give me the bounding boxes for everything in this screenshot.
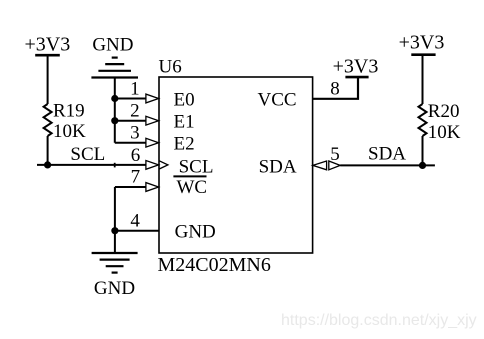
wire: R19 bottom to SCL net: [47, 136, 49, 165]
svg-text:SDA: SDA: [368, 144, 406, 165]
wire: pin 2 stub: [115, 120, 146, 122]
svg-text:E2: E2: [174, 134, 195, 155]
wire: VCC pin 8: [313, 77, 358, 99]
svg-text:WC: WC: [177, 177, 208, 198]
svg-text:7: 7: [131, 166, 141, 187]
junction: bus / pin1: [111, 95, 118, 102]
svg-text:4: 4: [130, 210, 140, 231]
wire: pin 1 stub: [115, 98, 146, 100]
svg-text:E0: E0: [174, 90, 195, 111]
power symbol +3V3 (left): [25, 34, 71, 56]
resistor R19: [44, 101, 86, 142]
svg-text:GND: GND: [92, 35, 133, 56]
svg-text:https://blog.csdn.net/xjy_xjy: https://blog.csdn.net/xjy_xjy: [281, 312, 477, 329]
svg-text:1: 1: [130, 79, 140, 100]
svg-text:+3V3: +3V3: [399, 32, 445, 54]
svg-text:6: 6: [131, 145, 141, 166]
junction: SDA / R20: [419, 162, 426, 169]
svg-text:R20: R20: [428, 101, 460, 122]
svg-text:+3V3: +3V3: [333, 56, 379, 78]
wire: pin 4 stub: [115, 230, 159, 232]
svg-text:SCL: SCL: [70, 144, 105, 165]
svg-text:U6: U6: [159, 56, 182, 77]
ground GND (bottom): [92, 253, 138, 299]
svg-text:3: 3: [130, 123, 140, 144]
svg-text:10K: 10K: [428, 122, 461, 143]
svg-text:SDA: SDA: [259, 157, 297, 178]
wire: pin 3 stub: [115, 142, 146, 144]
pin 1 input triangle: [146, 94, 159, 103]
wire: pin 7 stub: [115, 186, 146, 188]
junction: pin4 / gnd: [111, 227, 118, 234]
svg-text:10K: 10K: [53, 121, 86, 142]
power symbol +3V3 (middle): [333, 56, 379, 78]
svg-text:M24C02MN6: M24C02MN6: [158, 254, 271, 276]
pin 3 input triangle: [146, 138, 159, 147]
ground GND (top, flipped earth): [91, 35, 138, 78]
svg-text:VCC: VCC: [258, 90, 297, 111]
pin 7 input triangle: [146, 183, 159, 192]
wire: R20 bottom to SDA net: [422, 136, 424, 165]
svg-text:8: 8: [330, 79, 340, 100]
svg-text:R19: R19: [53, 101, 85, 122]
IC U6 M24C02MN6 body: [159, 77, 313, 253]
wire: top GND bus vertical: [114, 78, 116, 143]
svg-text:+3V3: +3V3: [25, 34, 71, 56]
overbar of WC: [173, 175, 206, 177]
pin 6 clock chevron: [159, 161, 168, 169]
resistor R20: [419, 101, 461, 143]
svg-text:GND: GND: [94, 278, 135, 299]
svg-text:2: 2: [130, 101, 140, 122]
wire: SDA net horizontal: [340, 164, 435, 166]
wire: SCL net horizontal: [37, 164, 146, 166]
junction: SCL / R19: [44, 161, 51, 168]
wire: +3V3 bar to R20 top: [422, 55, 424, 104]
pin 5 bidirectional triangles: [313, 161, 340, 170]
pin 2 input triangle: [146, 116, 159, 125]
junction: bus / pin2: [111, 117, 118, 124]
svg-text:E1: E1: [174, 112, 195, 133]
wire: WC/GND vertical: [114, 187, 116, 253]
power symbol +3V3 (right): [399, 32, 445, 55]
wire: +3V3 bar to R19 top: [47, 55, 49, 104]
svg-text:SCL: SCL: [179, 157, 214, 178]
pin 6 input triangle: [146, 161, 159, 170]
junction tick on SCL wire: [114, 163, 116, 168]
svg-text:GND: GND: [175, 222, 216, 243]
